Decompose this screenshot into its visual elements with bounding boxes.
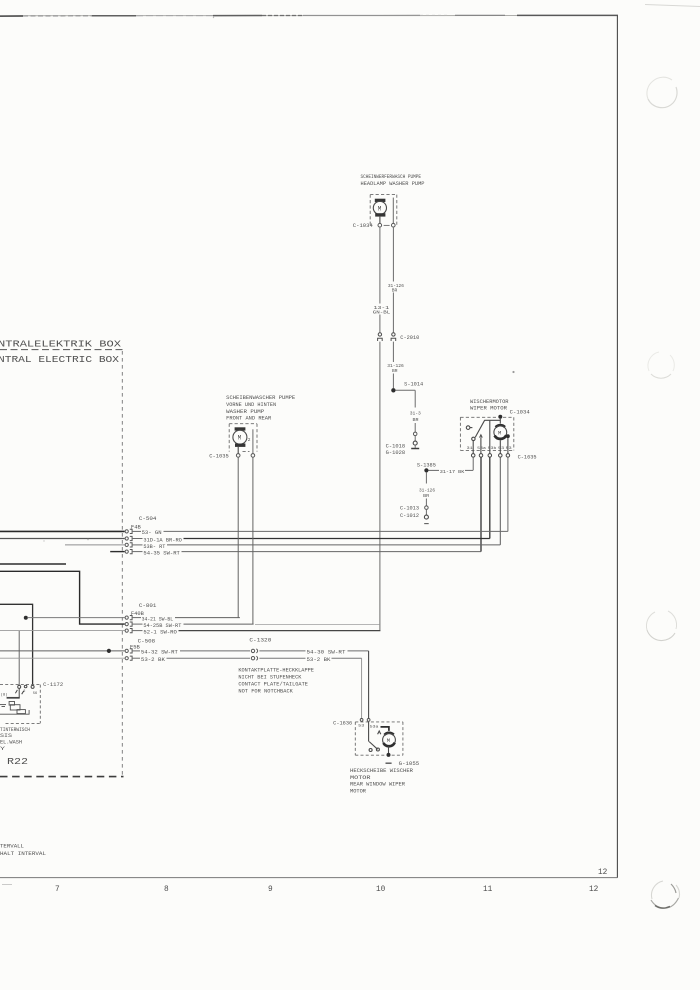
connector C-1013 [425,506,429,510]
svg-text:53B- RT: 53B- RT [143,544,165,550]
svg-text:C-504: C-504 [139,516,157,522]
svg-text:31-3: 31-3 [410,411,421,417]
svg-text:NTRAL ELECTRIC BOX: NTRAL ELECTRIC BOX [0,355,120,365]
connector C-504 pin, wire 31D-1A [125,537,128,540]
svg-text:12: 12 [589,886,599,894]
wire 54-32 SW-RT [0,650,125,652]
connector C-1034 pins [378,223,382,227]
svg-text:R22: R22 [7,756,28,767]
connector C-1320 pin, wire 54-30 [251,649,254,652]
interval caption fragments [0,844,46,857]
wiper motor dashed box [460,417,513,450]
central electric box title [0,340,122,365]
page right border [616,16,618,878]
svg-text:HEADLAMP WASHER PUMP: HEADLAMP WASHER PUMP [361,181,425,187]
ground G-1055 [386,762,392,764]
wire 31-17 BK [429,469,440,471]
wiper terminal labels 31 53a 53b 53 53 [467,446,513,451]
relay coil parts [0,702,29,715]
tailgate contact note [238,668,314,695]
bus wire 31D-1A BR-RO [0,538,125,540]
svg-text:34-21 SW-BL: 34-21 SW-BL [142,616,174,622]
rear wiper labels [350,768,413,795]
connector C-1035 pins [236,454,240,458]
connector C-504 pin, wire 53B [125,543,128,546]
svg-text:NOT FOR NOTCHBACK: NOT FOR NOTCHBACK [238,688,293,694]
connector C-2010 [378,333,396,341]
svg-text:10: 10 [376,886,386,894]
headlamp washer pump M1 dashed box [370,195,397,226]
wiper motor U1 labels [470,399,530,416]
svg-text:M: M [387,737,390,744]
svg-text:M: M [378,205,382,212]
connector C-1635 pins [471,454,509,458]
svg-text:53b: 53b [488,446,497,451]
front washer pump M2 motor symbol [235,427,246,430]
svg-text:C-1034: C-1034 [510,410,530,416]
wire 54-30 SW-RT drop to rear wiper pin 53a [368,651,370,719]
wire down to C-1013/C-1012 [425,473,427,484]
svg-text:NICHT BEI STUFENHECK: NICHT BEI STUFENHECK [238,675,301,681]
svg-text:F5B: F5B [130,644,140,650]
connector C-801 pin, wire 52-1 [125,629,128,632]
connector C-508 [130,639,155,651]
ZE interior wire to C-801 pin2 [0,571,125,624]
connector C-1012 [424,515,428,519]
connector C-504 [131,516,157,531]
splice S-1014 [391,388,395,392]
bus wire 54-35 SW-RT [110,551,124,553]
svg-text:31: 31 [467,447,474,451]
connector C-1018 [413,432,417,436]
svg-text:SCHEINWERFERWASCH PUMPE: SCHEINWERFERWASCH PUMPE [361,174,422,180]
connector C-504 pin, wire 53-GN [125,530,128,533]
svg-text:54-35 SW-RT: 54-35 SW-RT [143,551,180,557]
svg-text:31D-1A BR-RO: 31D-1A BR-RO [143,538,182,544]
connector C-1636 pins [360,719,363,722]
ZE interior wire stub [0,563,66,565]
svg-text:C-1635: C-1635 [518,455,537,461]
wiper switch contacts [466,420,500,453]
rear wiper terminals [358,725,379,730]
svg-text:31-126: 31-126 [419,487,435,493]
headlamp washer pump M1 labels [361,174,425,187]
wire 31-126 BR (right drop from headlamp pump) [392,227,394,388]
svg-text:NTRALELEKTRIK BOX: NTRALELEKTRIK BOX [0,340,122,350]
svg-text:C-801: C-801 [139,603,157,609]
ZE interior wire to relay (x32) [0,604,33,685]
svg-text:C-1172: C-1172 [43,682,63,688]
svg-text:11: 11 [483,886,493,894]
wire front pump pin 1 down to 34-21 SW-BL row [237,457,239,617]
connector C-508 pin, wire 54-32 [125,649,128,652]
connector C-801 pin, wire 54-25B [125,623,128,626]
relay caption fragments [0,727,30,752]
svg-text:9: 9 [268,886,273,894]
svg-text:53: 53 [358,725,365,729]
svg-text:C-1013: C-1013 [400,506,419,512]
svg-text:7: 7 [55,886,60,894]
svg-text:S-1014: S-1014 [404,381,423,387]
wire 13-1 GN-BL (left drop from headlamp pump) [379,227,381,631]
central electric box bottom edge [0,776,124,778]
bus wire 53B-RT [65,544,125,546]
svg-text:53: 53 [506,447,513,451]
svg-text:HALT INTERVAL: HALT INTERVAL [0,851,46,857]
svg-text:8: 8 [164,886,169,894]
svg-text:M: M [238,435,242,442]
svg-text:53a: 53a [477,447,486,451]
svg-text:53- GN: 53- GN [142,530,162,536]
binder holes [646,77,679,908]
svg-text:G-1055: G-1055 [399,761,420,767]
wire 53-2 BK drop to rear wiper pin 53 [361,658,363,718]
ZE wire relay to row 52-1 [18,631,20,686]
rear wiper switch [369,722,381,752]
central electric box top edge (dashed underline) [0,349,123,351]
connector C-1320 pin, wire 53-2 [251,657,254,660]
svg-text:31-17 BK: 31-17 BK [440,469,465,475]
svg-text:BR: BR [413,417,419,423]
svg-text:WIPER MOTOR: WIPER MOTOR [470,406,507,412]
svg-text:C-2010: C-2010 [400,335,419,341]
svg-text:G-1028: G-1028 [386,450,406,456]
relay pins [18,685,34,688]
connector C-801 [131,603,157,617]
svg-text:53-2 BK: 53-2 BK [141,657,165,663]
page top border [0,5,700,17]
svg-text:SIS: SIS [0,733,12,739]
svg-text:C-1035: C-1035 [209,454,229,460]
svg-text:C-1034: C-1034 [353,223,373,229]
wiper motor supply node [498,415,502,419]
wire from wiper pin 53e down to bus 53-GN [507,457,509,531]
wire front pump pin 2 down to 54-25B SW-RT row [252,457,254,624]
front washer pump M2 labels [226,395,295,421]
rear wiper motor M3 dashed box [355,722,403,755]
wire 52-1 SW-RO [0,630,125,632]
connector C-508 pin, wire 53-2 [125,657,128,660]
wire from wiper pin 53a down to bus 54-35 SW-RT [480,457,482,551]
wire from wiper pin 53 down to bus 53B-RT [499,457,501,545]
svg-text:WASHER PUMP: WASHER PUMP [226,409,264,415]
svg-text:(8): (8) [1,692,8,697]
splice S-1385 [424,468,428,472]
connector C-504 pin, wire 54-35 [125,550,128,553]
svg-text:BR: BR [392,288,398,294]
wiper motor M symbol [496,425,505,427]
node on 34-21 row [24,616,28,620]
relay contact [7,688,24,697]
svg-text:56: 56 [33,692,37,696]
svg-text:54-30 SW-RT: 54-30 SW-RT [307,650,346,656]
wire from wiper pin 31 down to splice S-1385 [472,457,474,470]
svg-text:53: 53 [498,447,505,451]
bottom scale line [0,877,617,879]
wire 31-3 BR to ground [396,389,416,391]
svg-text:EL.WASH: EL.WASH [0,740,22,746]
svg-text:12: 12 [598,869,608,877]
svg-text:GN-BL: GN-BL [373,310,391,316]
svg-text:C-508: C-508 [138,639,156,645]
wire from wiper pin 53b down to bus 31D-1A BR-RO [489,457,491,538]
svg-text:SCHEIBENWASCHER PUMPE: SCHEIBENWASCHER PUMPE [226,395,295,401]
ground G-1028 [411,448,419,450]
svg-text:C-1018: C-1018 [386,444,406,450]
svg-text:S-1385: S-1385 [417,462,436,468]
svg-text:MOTOR: MOTOR [350,789,366,795]
relay R22 dashed box [0,685,40,724]
svg-text:KONTAKTPLATTE-HECKKLAPPE: KONTAKTPLATTE-HECKKLAPPE [238,668,314,674]
connector C-801 pin, wire 34-21 [125,616,128,619]
svg-text:2: 2 [248,437,251,443]
headlamp washer pump M1 motor symbol [373,198,393,224]
svg-text:Y: Y [0,746,5,752]
svg-text:C-1636: C-1636 [333,720,352,726]
svg-text:FRONT AND REAR: FRONT AND REAR [226,415,271,421]
svg-text:53a: 53a [370,726,379,730]
svg-text:MOTOR: MOTOR [350,775,371,781]
svg-text:M: M [498,430,501,437]
svg-text:C-1320: C-1320 [249,638,271,644]
svg-text:53-2 BK: 53-2 BK [307,657,331,663]
svg-text:VORNE UND HINTEN: VORNE UND HINTEN [226,402,276,408]
svg-text:TINTERWISCH: TINTERWISCH [0,727,30,733]
svg-text:BR: BR [423,493,429,499]
svg-text:WISCHERMOTOR: WISCHERMOTOR [470,399,509,405]
central electric box right edge [121,351,123,777]
svg-text:HECKSCHEIBE WISCHER: HECKSCHEIBE WISCHER [350,768,413,774]
svg-text:52-1 SW-RO: 52-1 SW-RO [143,629,177,635]
svg-text:BR: BR [392,368,398,374]
svg-text:REAR WINDOW WIPER: REAR WINDOW WIPER [350,782,405,788]
wire 53-2 BK [0,657,125,659]
node on 54-32 row [107,649,111,653]
svg-text:54-25B SW-RT: 54-25B SW-RT [143,623,181,629]
bus wire 53-GN [0,530,125,532]
svg-text:CONTACT PLATE/TAILGATE: CONTACT PLATE/TAILGATE [238,682,308,688]
svg-text:TERVALL: TERVALL [0,844,24,850]
svg-text:54-32 SW-RT: 54-32 SW-RT [141,650,178,656]
front washer pump M2 dashed box [229,424,257,452]
rear wiper motor M symbol [381,727,389,731]
scale numbers [2,869,608,894]
svg-text:C-1012: C-1012 [400,513,419,519]
